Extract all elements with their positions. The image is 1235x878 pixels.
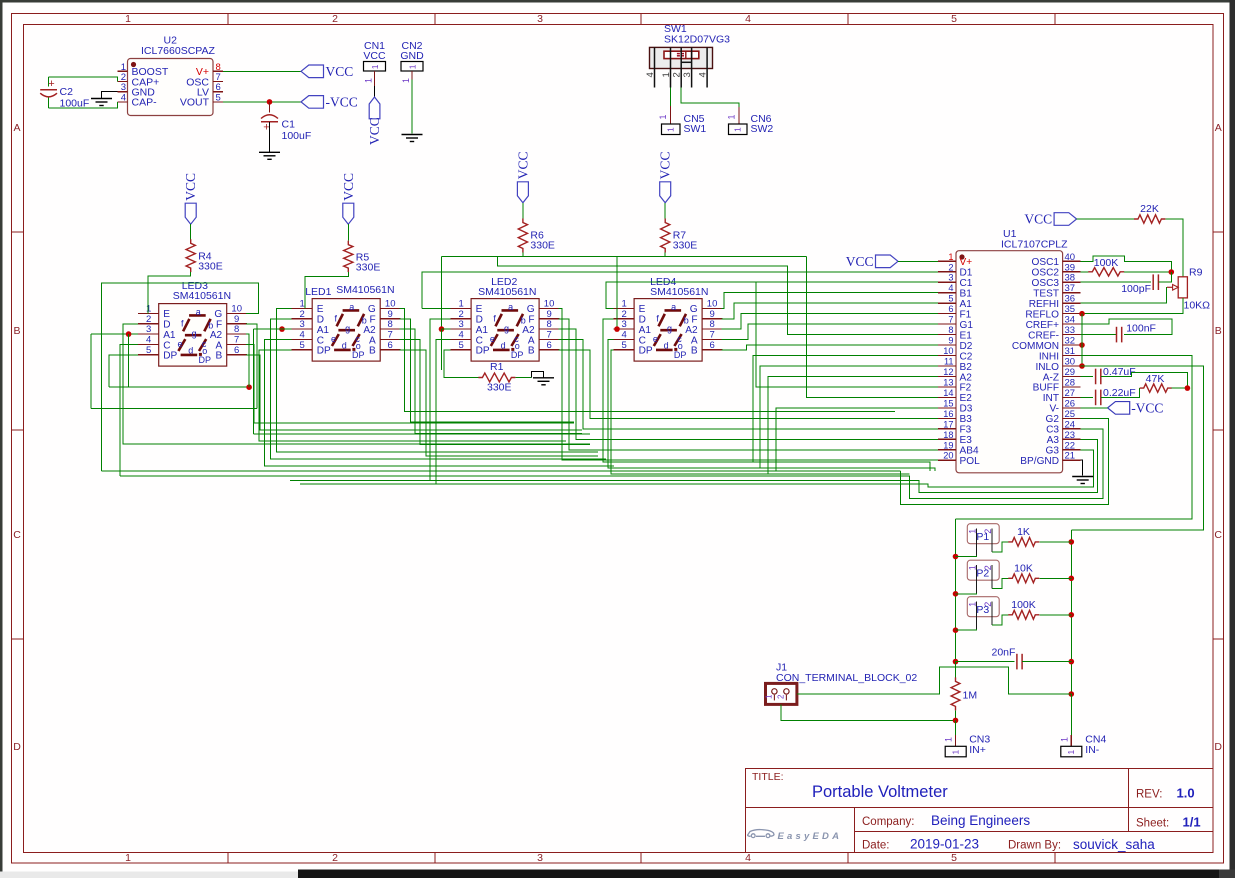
svg-text:1: 1	[125, 852, 131, 864]
border column ticks bottom	[227, 853, 229, 864]
svg-text:e: e	[178, 339, 183, 349]
svg-text:22: 22	[1065, 440, 1076, 451]
svg-text:330E: 330E	[356, 262, 381, 274]
svg-text:2: 2	[672, 72, 683, 77]
svg-text:4: 4	[121, 92, 126, 103]
node P1 tap	[953, 554, 959, 560]
svg-text:VCC: VCC	[363, 50, 386, 62]
port VCC (CN1) pointing up	[369, 97, 380, 119]
node LED4 pin3	[614, 326, 620, 332]
svg-text:9: 9	[388, 309, 393, 320]
svg-text:1: 1	[1066, 750, 1076, 755]
svg-text:b: b	[362, 316, 367, 326]
wire LED3 loop top	[101, 283, 258, 471]
svg-text:40: 40	[1065, 252, 1076, 263]
window chrome right scrollbar strip	[1230, 0, 1235, 878]
wire LED1 pin7 down	[400, 339, 590, 444]
svg-text:5: 5	[621, 340, 626, 351]
svg-text:A1: A1	[476, 325, 489, 336]
connector CN5 SW1	[658, 113, 706, 135]
svg-text:SM410561N: SM410561N	[478, 286, 536, 298]
resistor 1M	[951, 677, 977, 710]
svg-text:2: 2	[146, 314, 151, 325]
svg-text:9: 9	[948, 336, 953, 346]
svg-text:a: a	[349, 302, 354, 312]
svg-text:A-Z: A-Z	[1043, 372, 1059, 383]
wire R9 bottom to REFLO	[1082, 298, 1183, 314]
svg-text:REFLO: REFLO	[1025, 309, 1059, 320]
svg-text:3: 3	[537, 13, 543, 25]
svg-text:E: E	[163, 309, 170, 320]
svg-text:Sheet:: Sheet:	[1136, 818, 1169, 830]
svg-text:5: 5	[951, 13, 957, 25]
svg-text:-VCC: -VCC	[1131, 401, 1163, 416]
wire A-Z over 47K	[1101, 373, 1188, 389]
svg-text:D: D	[639, 315, 646, 326]
svg-text:VCC: VCC	[367, 117, 382, 145]
svg-text:R9: R9	[1189, 267, 1203, 279]
svg-text:OSC1: OSC1	[1032, 257, 1060, 268]
wire to CN3	[955, 720, 957, 735]
svg-text:C: C	[1214, 529, 1222, 541]
svg-text:P2: P2	[976, 568, 989, 580]
wire R4 feed to LED3 pin1	[148, 272, 191, 313]
wire U2 GND to ground	[102, 92, 118, 99]
svg-text:a: a	[196, 307, 201, 317]
svg-text:7: 7	[546, 329, 551, 340]
wire LED1 pin3	[254, 328, 292, 330]
wire C3 loop	[120, 429, 1103, 499]
svg-text:4: 4	[146, 334, 151, 345]
port VCC (U1 V+)	[876, 255, 899, 268]
svg-text:SM410561N: SM410561N	[650, 286, 708, 298]
svg-text:2: 2	[621, 309, 626, 320]
node 47K junction	[1185, 385, 1191, 391]
node J1 link	[1069, 691, 1075, 697]
svg-text:1.0: 1.0	[1177, 786, 1195, 801]
svg-text:20nF: 20nF	[992, 647, 1016, 659]
svg-text:g: g	[192, 329, 197, 339]
wire INHI to input divider	[956, 356, 1192, 519]
svg-text:F: F	[691, 315, 697, 326]
port -VCC (U2)	[301, 96, 324, 109]
svg-text:d: d	[501, 341, 506, 351]
ground below C1	[259, 151, 280, 153]
svg-text:29: 29	[1065, 367, 1076, 378]
svg-text:A2: A2	[960, 372, 973, 383]
svg-text:34: 34	[1065, 315, 1076, 326]
resistor R6 330E	[518, 219, 555, 253]
wire LED3 pin6 to bundle	[246, 355, 582, 430]
svg-text:VCC: VCC	[341, 173, 356, 201]
svg-text:24: 24	[1065, 419, 1076, 430]
svg-text:C: C	[476, 335, 483, 346]
wire VCC port to R5	[347, 224, 349, 240]
wire LED1 pin5 left	[259, 350, 566, 441]
svg-text:E: E	[476, 304, 483, 315]
svg-text:14: 14	[943, 388, 953, 398]
svg-text:B3: B3	[960, 414, 973, 425]
svg-text:G: G	[690, 304, 698, 315]
svg-text:15: 15	[943, 398, 953, 408]
svg-text:11: 11	[944, 357, 954, 367]
svg-text:6: 6	[388, 340, 393, 351]
svg-text:12: 12	[943, 367, 953, 377]
svg-text:21: 21	[1065, 451, 1076, 462]
ground at BP/GND	[1072, 476, 1093, 478]
port VCC (U2)	[301, 65, 324, 78]
wire P3 pin2 to 100K	[992, 615, 1008, 625]
svg-text:23: 23	[1065, 430, 1076, 441]
svg-text:39: 39	[1065, 262, 1076, 273]
svg-text:A: A	[369, 335, 376, 346]
wire U1 AB4 from LED2 pin9	[559, 319, 938, 450]
trimmer P2	[967, 560, 999, 593]
svg-text:4: 4	[745, 852, 751, 864]
wire U1 A2 row	[768, 376, 938, 474]
wire LED1 pin3 bus down	[254, 433, 590, 435]
capacitor C1 100uF	[261, 102, 311, 152]
wire 1M top	[955, 662, 957, 678]
svg-text:A2: A2	[210, 330, 223, 341]
svg-text:C: C	[13, 529, 21, 541]
svg-text:G1: G1	[960, 320, 974, 331]
wire LED2 pin4 down	[436, 339, 451, 484]
svg-text:2: 2	[332, 852, 338, 864]
svg-text:POL: POL	[960, 456, 981, 467]
svg-text:2: 2	[777, 694, 786, 699]
svg-text:souvick_saha: souvick_saha	[1073, 837, 1155, 852]
svg-text:ICL7107CPLZ: ICL7107CPLZ	[1001, 239, 1068, 251]
wire U1 E3 from LED2 pin8	[559, 329, 938, 439]
svg-text:25: 25	[1065, 409, 1076, 420]
svg-text:+: +	[263, 122, 269, 134]
svg-text:A1: A1	[960, 299, 973, 310]
wire REFLO-COMMON-INLO vertical	[1081, 314, 1083, 366]
resistor 47K	[1140, 373, 1172, 392]
svg-text:A: A	[13, 122, 20, 134]
resistor 100K	[1081, 257, 1125, 276]
svg-text:8: 8	[948, 325, 953, 335]
svg-text:LED1: LED1	[305, 286, 331, 298]
svg-text:A1: A1	[317, 325, 330, 336]
svg-text:b: b	[684, 316, 689, 326]
svg-text:b: b	[521, 316, 526, 326]
svg-text:INHI: INHI	[1039, 351, 1059, 362]
svg-text:5: 5	[948, 294, 953, 304]
svg-text:D: D	[13, 741, 21, 753]
port VCC (R5 feed)	[343, 203, 354, 224]
svg-text:1: 1	[732, 127, 742, 132]
svg-text:4: 4	[948, 283, 953, 293]
svg-text:A2: A2	[363, 325, 376, 336]
svg-text:5: 5	[458, 340, 463, 351]
svg-text:1: 1	[407, 64, 417, 69]
svg-text:G3: G3	[1046, 446, 1060, 457]
connector CN1 VCC	[363, 40, 386, 97]
wire LED1 pin4 left	[265, 339, 614, 466]
svg-text:g: g	[667, 324, 672, 334]
svg-text:3: 3	[146, 324, 151, 335]
wire LED1 pin6 down	[400, 350, 598, 456]
capacitor 0.47uF (A-Z)	[1081, 366, 1136, 384]
svg-text:32: 32	[1065, 336, 1076, 347]
svg-text:B: B	[1215, 325, 1222, 337]
svg-text:+: +	[48, 78, 54, 90]
svg-text:B: B	[215, 351, 222, 362]
svg-text:13: 13	[943, 377, 953, 387]
wire long bottom bus	[101, 470, 900, 472]
wire U1 C1 to LED4 pin1	[606, 282, 938, 308]
svg-text:4: 4	[621, 329, 626, 340]
svg-text:CREF-: CREF-	[1028, 330, 1059, 341]
wire U1 B1 to LED4 pin10	[722, 293, 938, 309]
ground below CN2	[402, 134, 423, 136]
svg-text:Being Engineers: Being Engineers	[931, 813, 1030, 828]
svg-text:D1: D1	[960, 268, 973, 279]
svg-text:DP: DP	[476, 346, 490, 357]
wire J1 pin2 to IN+ node	[781, 704, 956, 720]
wire 100K to right bus	[1039, 614, 1071, 616]
svg-text:DP: DP	[674, 350, 687, 360]
svg-text:DP: DP	[511, 350, 524, 360]
node REFLO junction	[1079, 311, 1085, 317]
wire LED3 pin2 down	[123, 324, 590, 444]
svg-text:REV:: REV:	[1136, 789, 1162, 801]
wire LED3 pin4 down	[120, 344, 138, 476]
svg-text:CAP-: CAP-	[132, 97, 158, 109]
wire 47K to junction	[1172, 387, 1188, 389]
capacitor 0.22uF (INT)	[1081, 387, 1136, 405]
wire SW1 pin1 to CN5	[669, 88, 671, 107]
svg-text:TITLE:: TITLE:	[752, 771, 784, 783]
svg-text:REFHI: REFHI	[1029, 299, 1059, 310]
svg-text:AB4: AB4	[960, 446, 979, 457]
svg-text:Drawn By:: Drawn By:	[1008, 840, 1061, 852]
EasyEDA logo	[748, 830, 774, 838]
svg-text:DP: DP	[352, 350, 365, 360]
wire LED3 pin5 link	[109, 355, 138, 387]
wire P3 pin1 to bus	[956, 629, 977, 630]
svg-text:SM410561N: SM410561N	[173, 290, 231, 302]
svg-text:DP: DP	[163, 351, 177, 362]
svg-text:e: e	[490, 334, 495, 344]
svg-text:e: e	[653, 334, 658, 344]
svg-text:9: 9	[234, 314, 239, 325]
svg-text:6: 6	[948, 304, 953, 314]
svg-text:VCC: VCC	[1024, 212, 1052, 227]
wire 20nF to right bus	[1022, 661, 1071, 663]
svg-text:C1: C1	[282, 119, 296, 131]
port VCC (22K feed)	[1054, 213, 1077, 226]
border row ticks right	[1213, 231, 1224, 233]
svg-text:1K: 1K	[1017, 526, 1030, 538]
svg-text:7: 7	[388, 329, 393, 340]
svg-text:C: C	[317, 335, 324, 346]
svg-text:10: 10	[231, 303, 242, 314]
svg-text:G: G	[214, 309, 222, 320]
trimmer P1	[967, 524, 999, 556]
wire VCC port to U1 V+	[898, 260, 938, 262]
svg-text:F3: F3	[960, 425, 972, 436]
svg-text:1: 1	[950, 750, 960, 755]
svg-text:DP: DP	[199, 355, 212, 365]
svg-text:D: D	[476, 315, 483, 326]
svg-text:A: A	[691, 335, 698, 346]
svg-text:2019-01-23: 2019-01-23	[910, 837, 979, 852]
node 20nF left	[953, 659, 959, 665]
wire LED2 pin2 down	[430, 319, 451, 481]
svg-text:1: 1	[727, 114, 737, 119]
svg-text:1: 1	[665, 127, 675, 132]
svg-text:VCC: VCC	[515, 152, 530, 180]
wire VCC port to R7	[664, 203, 666, 219]
resistor 100K	[1008, 599, 1039, 619]
svg-text:100K: 100K	[1094, 257, 1119, 269]
svg-text:C: C	[163, 340, 170, 351]
svg-text:TEST: TEST	[1033, 289, 1059, 300]
ground at U2 GND	[91, 98, 112, 100]
wire 1M bottom	[955, 710, 957, 720]
svg-text:28: 28	[1065, 377, 1076, 388]
svg-text:6: 6	[234, 345, 239, 356]
svg-text:6: 6	[709, 340, 714, 351]
svg-text:4: 4	[458, 329, 463, 340]
wire feed bus to LED4 pin3	[616, 257, 618, 330]
svg-text:P3: P3	[976, 604, 989, 616]
svg-text:g: g	[504, 324, 509, 334]
wire U1 F3 from LED2 pin7	[559, 339, 938, 428]
wire U1 D1 row	[422, 272, 938, 309]
svg-text:BP/GND: BP/GND	[1020, 456, 1059, 467]
svg-text:30: 30	[1065, 357, 1076, 368]
svg-text:8: 8	[234, 324, 239, 335]
wire CN2 to ground	[411, 80, 413, 134]
resistor R5 330E	[344, 241, 381, 274]
svg-text:3: 3	[300, 319, 305, 330]
svg-text:35: 35	[1065, 304, 1076, 315]
node INLO junction	[1079, 363, 1085, 369]
wire input right bus	[1070, 530, 1072, 747]
svg-text:1: 1	[944, 737, 954, 742]
wire U1 A1 to LED4 pin9	[722, 303, 938, 319]
svg-text:1: 1	[621, 298, 626, 309]
svg-text:3: 3	[458, 319, 463, 330]
svg-text:E2: E2	[960, 393, 973, 404]
svg-text:ICL7660SCPAZ: ICL7660SCPAZ	[141, 45, 216, 57]
node 20nF right	[1069, 659, 1075, 665]
svg-text:A3: A3	[1047, 435, 1060, 446]
wire P2 pin2 to 10K	[992, 578, 1008, 588]
wire U1 F2 row	[756, 282, 938, 387]
svg-text:2: 2	[300, 309, 305, 320]
svg-text:37: 37	[1065, 283, 1076, 294]
wire R1 to ground	[515, 377, 531, 379]
connector CN2 GND	[400, 40, 424, 83]
svg-text:A1: A1	[163, 330, 176, 341]
svg-text:F2: F2	[960, 383, 972, 394]
svg-text:INT: INT	[1043, 393, 1059, 404]
svg-text:SK12D07VG3: SK12D07VG3	[664, 34, 730, 46]
LED display LED4 SM410561N	[614, 276, 723, 361]
resistor 1K	[1008, 526, 1039, 546]
wire input divider left bus	[955, 519, 957, 677]
svg-text:B: B	[528, 346, 535, 357]
connector CN6 SW2	[727, 113, 774, 135]
svg-text:8: 8	[709, 319, 714, 330]
wire G3 loop	[300, 450, 1093, 487]
op-amp U1 ICL7107CPLZ	[938, 228, 1081, 473]
svg-text:V-: V-	[1049, 404, 1059, 415]
svg-text:1: 1	[370, 64, 380, 69]
wire LED4 pin5 down	[611, 350, 910, 474]
connector CN4 IN-	[1060, 734, 1107, 757]
svg-text:C2: C2	[960, 351, 973, 362]
wire BP/GND to ground	[1081, 460, 1083, 475]
svg-text:10: 10	[385, 298, 396, 309]
svg-text:Date:: Date:	[862, 840, 890, 852]
svg-text:a: a	[671, 302, 676, 312]
wire 100K to oscillator node	[1124, 271, 1171, 273]
svg-text:1/1: 1/1	[1183, 815, 1201, 830]
svg-text:3: 3	[537, 852, 543, 864]
svg-text:8: 8	[388, 319, 393, 330]
svg-text:18: 18	[943, 430, 953, 440]
wire U1 D2 to LED4 pin6	[722, 345, 938, 350]
svg-text:4: 4	[745, 13, 751, 25]
port -VCC (U1 V-)	[1108, 401, 1164, 416]
svg-text:1: 1	[765, 694, 774, 699]
svg-text:VCC: VCC	[183, 173, 198, 201]
svg-text:E1: E1	[960, 330, 973, 341]
wire LED2 pin5 to R1	[444, 350, 478, 378]
svg-text:R1: R1	[490, 361, 504, 373]
wire P1 pin2 to 1K	[992, 542, 1008, 552]
svg-text:8: 8	[546, 319, 551, 330]
wire LED3 pin7 to bundle	[246, 344, 574, 423]
wire CREF+ loop	[1081, 319, 1172, 334]
LED display LED3 SM410561N	[138, 280, 247, 366]
wire VCC port to R4	[190, 224, 192, 239]
svg-text:g: g	[345, 324, 350, 334]
wire feed bus to LED2 pin3	[441, 257, 443, 330]
wire OSC1 loop to oscillator node	[1081, 256, 1172, 272]
svg-text:B: B	[13, 325, 20, 337]
wire LED1 pin8 down	[400, 329, 582, 433]
svg-text:1: 1	[948, 252, 953, 262]
svg-text:2: 2	[332, 13, 338, 25]
svg-text:2: 2	[948, 262, 953, 272]
svg-text:D: D	[317, 315, 324, 326]
svg-text:100K: 100K	[1011, 599, 1036, 611]
capacitor C2 100uF	[40, 77, 89, 110]
svg-text:1: 1	[658, 114, 668, 119]
svg-text:27: 27	[1065, 388, 1076, 399]
wire LED3 under bus 2	[91, 408, 257, 410]
svg-text:e: e	[331, 334, 336, 344]
svg-text:GND: GND	[400, 50, 424, 62]
wire 100pF to oscillator node	[1158, 272, 1171, 282]
resistor 10K	[1008, 562, 1039, 582]
svg-text:b: b	[208, 321, 213, 331]
svg-text:100pF: 100pF	[1121, 283, 1151, 295]
wire U1 B3 from LED2 pin6	[559, 350, 938, 419]
wire 1K to right bus	[1039, 541, 1071, 543]
node LED3 under	[246, 384, 252, 390]
svg-text:5: 5	[300, 340, 305, 351]
node LED1 pin3	[279, 326, 285, 332]
svg-text:5: 5	[216, 92, 221, 103]
